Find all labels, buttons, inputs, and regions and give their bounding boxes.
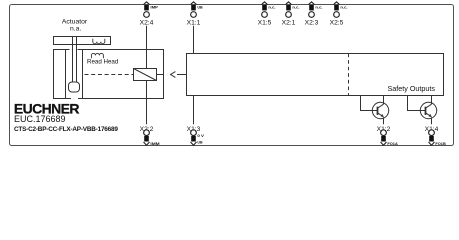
svg-text:CTS-C2-BP-CC-FLX-AP-VBB-176689: CTS-C2-BP-CC-FLX-AP-VBB-176689	[14, 126, 118, 133]
actuator bar	[54, 37, 111, 45]
pin X2:5	[330, 2, 348, 26]
svg-text:X2:3: X2:3	[305, 19, 319, 26]
svg-text:Read Head: Read Head	[87, 59, 119, 66]
arrow head pointing left	[171, 72, 176, 78]
transistor Q1	[361, 96, 389, 125]
pin X2:3	[305, 2, 323, 26]
svg-text:n.c.: n.c.	[315, 5, 322, 10]
svg-text:FO1A: FO1A	[387, 141, 398, 146]
pin X2:4	[140, 2, 159, 26]
wire U1 to box edge	[157, 74, 164, 76]
svg-text:X2:1: X2:1	[282, 19, 296, 26]
slot wall left	[65, 50, 67, 99]
wire arrow to main box	[177, 74, 187, 76]
svg-text:n.c.: n.c.	[340, 5, 347, 10]
dashed divider	[348, 54, 350, 96]
svg-text:UB: UB	[197, 5, 202, 10]
svg-text:n.c.: n.c.	[268, 5, 275, 10]
svg-text:X1:1: X1:1	[187, 19, 201, 26]
svg-text:Actuator: Actuator	[62, 19, 88, 26]
wire U1 to X2:2	[146, 81, 148, 125]
transponder block U1	[134, 69, 157, 81]
svg-text:n.c.: n.c.	[292, 5, 299, 10]
read head box	[54, 50, 164, 99]
svg-text:IMP: IMP	[150, 5, 158, 10]
locking bolt ball	[69, 82, 80, 92]
coil L2 read head	[91, 53, 103, 58]
pin X2:1	[282, 2, 300, 26]
border frame	[10, 5, 454, 146]
svg-text:EUC.176689: EUC.176689	[14, 114, 66, 124]
pin X1:4	[425, 126, 446, 146]
pin X1:3	[187, 126, 205, 145]
svg-text:IMM: IMM	[150, 141, 160, 146]
transistor Q2	[408, 96, 437, 125]
svg-text:X2:5: X2:5	[330, 19, 344, 26]
svg-text:X1:5: X1:5	[258, 19, 272, 26]
coil L1 in actuator	[93, 39, 105, 44]
svg-text:UB: UB	[197, 140, 202, 145]
wire X2:4 to U1	[146, 26, 148, 69]
dashed coupling line	[85, 74, 134, 76]
wire X1:1 to main box	[193, 26, 195, 54]
svg-text:0 V: 0 V	[197, 133, 204, 138]
pin X2:2	[140, 126, 161, 146]
pin X1:2	[377, 126, 398, 146]
svg-text:X2:4: X2:4	[140, 19, 154, 26]
actuator shaft	[72, 37, 74, 83]
svg-text:FO1B: FO1B	[435, 141, 446, 146]
pin X1:5	[258, 2, 276, 26]
wire main box to X1:3	[193, 96, 195, 125]
main logic box	[187, 54, 444, 96]
svg-text:n.a.: n.a.	[70, 26, 81, 33]
pin X1:1	[187, 2, 203, 26]
slot wall right	[82, 50, 84, 99]
svg-text:Safety Outputs: Safety Outputs	[387, 84, 435, 93]
